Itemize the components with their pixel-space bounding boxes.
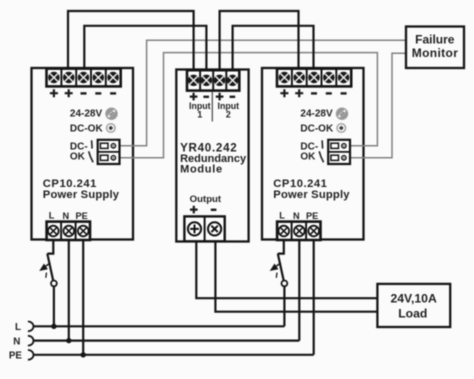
svg-text:N: N <box>13 336 20 347</box>
svg-text:1: 1 <box>197 110 202 120</box>
svg-text:Failure: Failure <box>415 33 455 47</box>
svg-text:L: L <box>15 322 21 333</box>
svg-text:Load: Load <box>398 307 427 321</box>
svg-text:PE: PE <box>9 351 23 362</box>
svg-text:Output: Output <box>190 194 222 205</box>
svg-text:Module: Module <box>180 164 223 176</box>
svg-text:2: 2 <box>226 110 231 120</box>
svg-text:24V,10A: 24V,10A <box>390 291 437 305</box>
svg-text:Monitor: Monitor <box>412 46 458 60</box>
